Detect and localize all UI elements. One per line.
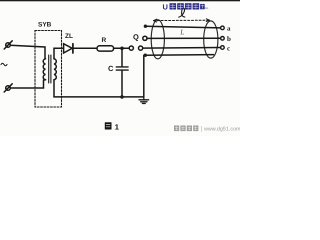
wire: secondary bottom to ground rail (53, 80, 55, 97)
earth ground symbol (139, 97, 149, 104)
blue caption text (CJK simulated) (163, 3, 209, 12)
transformer T1 core (48, 55, 50, 83)
watermark 电工之友 | www.dg51.com (174, 126, 241, 133)
dashed enclosure box SYB (35, 31, 62, 108)
ground rail wire (54, 96, 144, 98)
svg-text:Q: Q (133, 33, 139, 42)
open terminal circle Q right (139, 46, 143, 50)
open terminal circle Q left (129, 46, 133, 50)
svg-text:a: a (227, 25, 231, 33)
tap wire c (143, 46, 225, 50)
rail junction dot (120, 95, 124, 99)
solenoid coil right ellipse (204, 21, 218, 58)
svg-text:ZL: ZL (65, 33, 73, 40)
svg-text:1: 1 (115, 122, 119, 131)
diode ZL (64, 44, 73, 53)
svg-text:SYB: SYB (38, 22, 52, 29)
AC input terminal X2 (bottom left) (4, 84, 12, 92)
capacitor C (116, 48, 128, 97)
AC input terminal X1 (top left) (4, 41, 12, 49)
tap wire a (top) (144, 25, 225, 30)
svg-text:U: U (163, 3, 168, 12)
wire: X1 to transformer primary top (10, 45, 45, 59)
tap wire b (143, 36, 224, 40)
transformer T1 primary winding (43, 59, 45, 80)
junction node dot (120, 47, 124, 51)
solenoid coil left ellipse (151, 20, 164, 59)
svg-text:b: b (227, 35, 231, 43)
svg-text:L: L (179, 28, 184, 36)
svg-text:R: R (102, 37, 107, 44)
transformer T1 secondary winding (54, 59, 56, 80)
AC tilde symbol (1, 63, 7, 66)
wire: diode to resistor R (73, 47, 97, 49)
coil bottom wire to ground (144, 54, 214, 97)
svg-text:C: C (108, 64, 114, 73)
wire: secondary top to diode (54, 48, 64, 59)
figure label 图1 (105, 122, 119, 131)
wire: resistor to node (114, 47, 130, 49)
image top border edge (0, 0, 240, 1)
svg-text:www.dg51.com: www.dg51.com (203, 127, 240, 133)
caption trailing dash (205, 8, 208, 9)
wire: X2 to transformer primary bottom (10, 80, 45, 88)
resistor R (97, 46, 114, 51)
coil length dimension line (dashed with arrows) (154, 19, 210, 22)
svg-text:c: c (227, 44, 230, 52)
script letter l (length label) (179, 8, 185, 17)
